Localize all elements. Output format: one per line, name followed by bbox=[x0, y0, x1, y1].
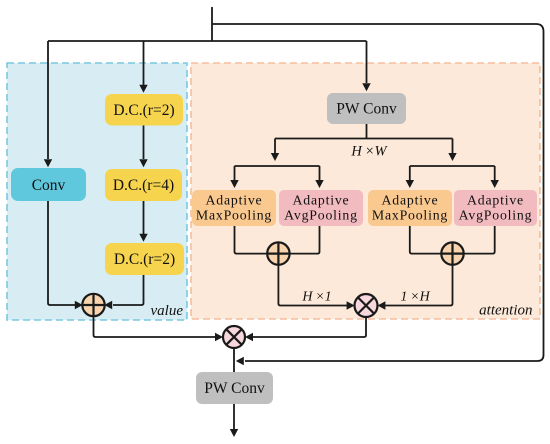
svg-text:Adaptive: Adaptive bbox=[382, 193, 439, 208]
svg-text:PW Conv: PW Conv bbox=[204, 380, 265, 397]
svg-text:MaxPooling: MaxPooling bbox=[372, 208, 448, 223]
svg-text:D.C.(r=2): D.C.(r=2) bbox=[114, 251, 175, 268]
svg-text:1 ×H: 1 ×H bbox=[400, 290, 430, 305]
svg-text:attention: attention bbox=[479, 303, 532, 319]
svg-text:MaxPooling: MaxPooling bbox=[196, 208, 272, 223]
svg-text:value: value bbox=[151, 303, 184, 319]
svg-text:H ×1: H ×1 bbox=[301, 290, 331, 305]
svg-text:AvgPooling: AvgPooling bbox=[459, 208, 533, 223]
svg-text:Adaptive: Adaptive bbox=[206, 193, 263, 208]
svg-text:D.C.(r=4): D.C.(r=4) bbox=[113, 177, 174, 194]
svg-text:Conv: Conv bbox=[32, 177, 66, 194]
svg-text:H ×W: H ×W bbox=[350, 143, 388, 159]
svg-text:D.C.(r=2): D.C.(r=2) bbox=[113, 102, 174, 119]
svg-text:Adaptive: Adaptive bbox=[293, 193, 350, 208]
svg-text:PW Conv: PW Conv bbox=[336, 101, 397, 118]
svg-text:AvgPooling: AvgPooling bbox=[284, 208, 358, 223]
svg-text:Adaptive: Adaptive bbox=[467, 193, 524, 208]
